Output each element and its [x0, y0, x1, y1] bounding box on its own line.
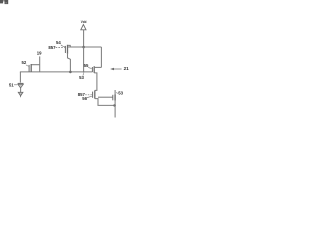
corner figure-number fragment (clipped text): [0, 0, 8, 4]
wire M53 gate lead: [98, 96, 113, 98]
svg-text:19: 19: [37, 51, 42, 56]
svg-text:53: 53: [79, 75, 84, 80]
wire M55 drain lead: [94, 66, 101, 68]
svg-text:21: 21: [124, 66, 129, 71]
wire M52 drain lead: [31, 64, 40, 66]
node junction dot bottom right: [113, 104, 116, 107]
svg-text:52: 52: [22, 60, 27, 65]
transistor M55: [92, 66, 94, 73]
Vdd supply triangle symbol: [81, 25, 86, 30]
wire M55 source to M56 drain: [94, 73, 97, 91]
node T-junction dot: [83, 71, 85, 73]
wire top horizontal rail: [67, 46, 101, 48]
wire long horizontal net: [20, 71, 93, 73]
transistor M52: [29, 64, 31, 72]
leader for label 56: [87, 96, 92, 97]
svg-text:56: 56: [82, 96, 87, 101]
output leader arrow to label 21: [114, 68, 122, 70]
dashed leader 857 to M56 gate: [85, 94, 92, 96]
wire M53 drain stub: [114, 90, 116, 94]
svg-text:51: 51: [9, 82, 14, 87]
diode D51: [18, 83, 24, 88]
leader for label 53 mid: [82, 73, 85, 75]
leader for label 53 right: [116, 92, 118, 95]
wire stub node 19: [39, 56, 41, 72]
svg-text:Vdd: Vdd: [81, 19, 87, 24]
wire M56 source to right: [95, 99, 115, 106]
wire M54 source down: [68, 54, 71, 72]
wire right drop to M55 drain: [100, 47, 102, 67]
node junction dot at Vdd rail: [82, 46, 85, 49]
ground symbol: [18, 92, 23, 96]
svg-text:857: 857: [48, 45, 56, 50]
transistor M54: [65, 45, 70, 54]
wire diode to ground: [20, 88, 22, 92]
node junction dot M54 source: [69, 71, 72, 74]
leader for label 51: [14, 84, 17, 86]
transistor M56: [93, 90, 95, 98]
leader for label 55: [88, 67, 92, 68]
svg-text:55: 55: [84, 63, 89, 68]
transistor M53: [113, 94, 115, 100]
wire down-left to diode: [19, 72, 21, 83]
wire main vertical net 53: [83, 47, 85, 72]
leader for label 54: [61, 45, 65, 47]
svg-text:53: 53: [118, 90, 123, 95]
dashed leader 857 to M54 gate: [56, 47, 65, 49]
leader for label 52: [26, 65, 29, 66]
wire M53 source down: [114, 101, 116, 118]
wire Vdd to junction: [83, 30, 85, 47]
svg-text:54: 54: [56, 40, 61, 45]
